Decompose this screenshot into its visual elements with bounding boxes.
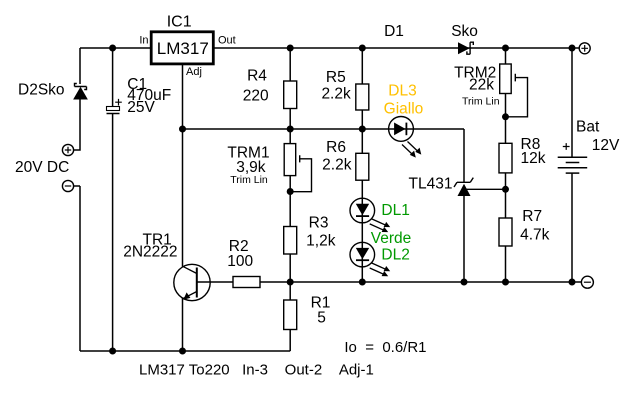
svg-text:LM317 To220 In-3 Out-2: LM317 To220 In-3 Out-2 Adj-1	[139, 362, 374, 379]
svg-text:In: In	[139, 35, 148, 47]
wire mid rail (base row)	[197, 281, 582, 283]
node adj collector	[179, 126, 186, 133]
svg-text:2.2k: 2.2k	[321, 86, 351, 103]
svg-text:R6: R6	[326, 139, 346, 156]
wire battery column	[571, 48, 573, 282]
svg-text:TL431: TL431	[409, 176, 453, 193]
node adj R4	[287, 126, 294, 133]
node mid battery	[569, 279, 576, 286]
svg-text:R5: R5	[326, 69, 346, 86]
wire R4 column	[289, 48, 291, 300]
svg-text:2.2k: 2.2k	[322, 157, 352, 174]
svg-text:22k: 22k	[469, 77, 494, 94]
node top C1	[109, 45, 116, 52]
node mid R1	[287, 279, 294, 286]
wire left column	[74, 48, 80, 351]
svg-text:Out: Out	[218, 35, 236, 47]
diode D2 (schottky, vertical)	[74, 84, 87, 100]
wire adj rail	[183, 129, 465, 182]
node top TRM2	[502, 45, 509, 52]
IC1 regulator box U1 LM317	[151, 32, 213, 64]
svg-text:2N2222: 2N2222	[123, 243, 177, 260]
svg-text:12k: 12k	[521, 150, 546, 167]
node TL431 ref	[502, 186, 509, 193]
diode D1 (schottky, horizontal)	[458, 42, 473, 54]
svg-text:D1: D1	[384, 23, 404, 40]
wire TL431 column	[463, 196, 465, 282]
trimmer TRM1	[284, 144, 311, 192]
resistor R4	[284, 81, 297, 109]
svg-text:DL1: DL1	[381, 202, 409, 219]
LED DL3 (horizontal)	[389, 116, 422, 157]
wire top rail right segment	[214, 47, 580, 49]
svg-text:R4: R4	[247, 67, 267, 84]
wire TR1 collector/emitter column	[182, 64, 184, 351]
svg-text:D2Sko: D2Sko	[18, 82, 65, 99]
wire TRM2 column	[505, 48, 507, 282]
wire R5 column	[361, 48, 363, 282]
svg-text:Io = 0.6/R1: Io = 0.6/R1	[344, 339, 426, 356]
svg-text:Trim Lin: Trim Lin	[462, 96, 500, 108]
node top battery	[569, 45, 576, 52]
svg-text:12V: 12V	[592, 137, 620, 154]
node top R4	[287, 45, 294, 52]
svg-text:5: 5	[317, 310, 326, 327]
svg-text:Adj: Adj	[186, 66, 202, 78]
resistor R5	[356, 84, 369, 110]
wire bottom rail	[80, 330, 290, 352]
svg-text:R3: R3	[309, 214, 329, 231]
node TRM1 wiper	[287, 188, 294, 195]
svg-text:LM317: LM317	[157, 39, 209, 58]
LED DL2	[350, 242, 390, 276]
resistor R6	[356, 153, 369, 180]
node mid TL431	[461, 279, 468, 286]
transistor Q1 TR1	[174, 264, 210, 300]
terminal plus (20V input)	[62, 144, 73, 155]
node mid DL2	[359, 279, 366, 286]
resistor R7	[499, 218, 512, 246]
svg-text:25V: 25V	[127, 99, 155, 116]
svg-text:DL3: DL3	[388, 82, 416, 99]
node top R5	[359, 45, 366, 52]
LED DL1	[350, 198, 390, 232]
svg-text:Bat: Bat	[576, 119, 600, 136]
svg-text:1,2k: 1,2k	[306, 233, 336, 250]
svg-text:Sko: Sko	[451, 23, 478, 40]
terminal minus (20V input)	[62, 180, 73, 191]
svg-text:4.7k: 4.7k	[520, 227, 550, 244]
wire top rail left segment	[80, 47, 151, 49]
svg-text:Trim Lin: Trim Lin	[230, 174, 268, 186]
trimmer TRM2	[500, 64, 528, 117]
node bottom C1	[109, 348, 116, 355]
shunt regulator TL431	[454, 178, 506, 196]
svg-text:220: 220	[243, 88, 269, 105]
svg-text:R7: R7	[522, 208, 542, 225]
wire C1 column	[112, 48, 114, 351]
terminal plus (battery output)	[579, 43, 590, 54]
terminal minus (battery output)	[581, 276, 593, 288]
node TRM2 wiper	[502, 113, 509, 120]
svg-text:Giallo: Giallo	[384, 101, 424, 118]
svg-text:IC1: IC1	[167, 14, 192, 31]
node mid R7	[502, 279, 509, 286]
battery B1	[558, 143, 588, 173]
svg-text:DL2: DL2	[381, 246, 409, 263]
resistor R8	[499, 143, 512, 173]
node adj R5	[359, 126, 366, 133]
svg-text:100: 100	[227, 253, 253, 270]
svg-text:Verde: Verde	[371, 230, 412, 247]
capacitor C1 (electrolytic)	[107, 99, 122, 114]
resistor R1	[284, 300, 297, 330]
svg-text:20V DC: 20V DC	[15, 159, 69, 176]
resistor R3	[284, 227, 297, 255]
resistor R2 (horizontal)	[233, 277, 260, 288]
node bottom emitter	[179, 348, 186, 355]
